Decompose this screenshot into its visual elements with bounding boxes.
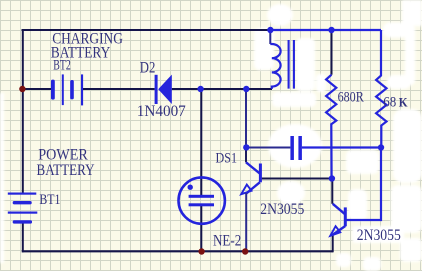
wire neon lamp top lead [200,89,202,196]
svg-text:680R: 680R [338,90,364,106]
wire left rail upper [22,29,24,193]
wire neon lamp bottom lead [200,206,202,252]
battery BT2 [51,74,83,105]
junction node maroon (22,89) [19,86,25,92]
junction node maroon (201.5,252.2) [198,248,204,254]
svg-text:BT2: BT2 [53,57,71,73]
wire main rail y89 [22,88,273,90]
wire capacitor left lead [246,147,290,149]
wire 680R top lead [331,30,333,75]
junction node blue (246.3,147.4) [243,144,249,150]
battery BT1 [8,193,38,224]
resistor 680R [326,75,336,179]
svg-text:BATTERY: BATTERY [37,162,95,179]
svg-text:DS1: DS1 [216,151,238,167]
transistor Q1 [241,148,260,252]
transformer L1 [270,32,294,89]
transistor Q2 [330,204,345,236]
resistor 68K [376,30,386,148]
wire top rail right blue [270,29,381,31]
junction node blue (270.4,30) [267,27,273,33]
neon lamp DS1 [179,177,225,223]
svg-text:NE-2: NE-2 [213,232,241,249]
junction node blue (331.5,30) [328,27,334,33]
wire top rail left black [22,29,271,31]
wire transformer bottom to Q1 collector x246 [245,89,247,148]
svg-text:2N3055: 2N3055 [260,201,304,218]
svg-text:D2: D2 [140,59,156,76]
wire 68K lower and Q2 base [347,148,382,221]
wire Q1 base to node y178.5 [262,178,332,180]
capacitor C1 [290,136,302,160]
wire capacitor right lead [302,146,381,148]
junction node blue (246.3,89) [243,86,249,92]
svg-text:2N3055: 2N3055 [357,227,401,244]
svg-text:1N4007: 1N4007 [137,103,186,120]
junction node blue (331.9,178.5) [329,175,335,181]
wire Q2 emitter lead [332,234,334,252]
svg-text:68: 68 [383,95,396,111]
junction node blue (200.6,89) [197,86,203,92]
wire Q2 collector lead [331,179,333,204]
wire left rail lower [22,223,24,252]
svg-text:BT1: BT1 [39,192,60,208]
svg-text:K: K [399,94,409,109]
junction node maroon (245.2,252.2) [242,248,248,254]
diode D2 [155,75,172,104]
junction node blue (381,147.5) [378,144,384,150]
wire bottom rail [22,250,333,252]
